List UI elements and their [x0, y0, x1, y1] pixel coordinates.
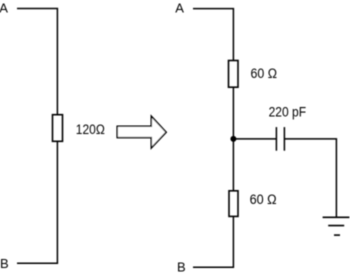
svg-text:A: A — [175, 1, 184, 16]
wire junction to capacitor C1 — [233, 138, 276, 140]
wire node A to corner and down to R2 — [193, 9, 233, 61]
wire R2 down to R3 — [232, 88, 234, 191]
svg-text:B: B — [0, 256, 9, 271]
svg-text:220 pF: 220 pF — [269, 105, 307, 120]
resistor R1 — [53, 115, 63, 142]
wire capacitor to ground — [284, 139, 336, 217]
ground bar 1 — [323, 216, 350, 218]
capacitor C1 left plate — [275, 127, 277, 151]
ground bar 3 — [334, 234, 340, 236]
capacitor C1 right plate — [283, 127, 285, 151]
wire node A to corner and down to R1 — [17, 9, 57, 115]
resistor R2 — [229, 61, 239, 88]
ground bar 2 — [328, 225, 344, 227]
svg-text:60 Ω: 60 Ω — [250, 192, 277, 207]
junction node — [230, 136, 236, 142]
equivalence block arrow — [117, 116, 166, 148]
svg-text:A: A — [0, 0, 8, 15]
wire R3 down to node B — [193, 217, 233, 267]
svg-text:120Ω: 120Ω — [76, 122, 105, 137]
svg-text:B: B — [177, 259, 186, 274]
resistor R3 — [229, 191, 238, 217]
wire R1 down to node B — [17, 142, 57, 264]
svg-text:60 Ω: 60 Ω — [251, 66, 278, 81]
